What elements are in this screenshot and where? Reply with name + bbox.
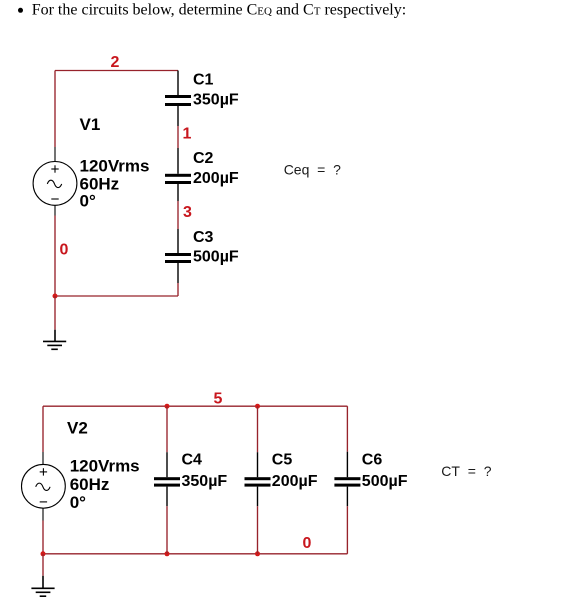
wire: net 2 left vertical: [54, 71, 56, 148]
svg-text:0°: 0°: [70, 493, 86, 512]
svg-text:5: 5: [214, 390, 223, 407]
ground symbol (bottom circuit): [31, 576, 54, 596]
wire: net 0 bottom rail: [43, 553, 347, 555]
wire: C6 branch bottom: [346, 506, 348, 554]
svg-text:1: 1: [183, 126, 192, 143]
wire: net 0 bottom rail: [55, 295, 178, 297]
capacitor C3: [165, 229, 191, 283]
bullet: [18, 8, 23, 13]
capacitor C2: [165, 148, 191, 201]
svg-text:Ceq = ?: Ceq = ?: [284, 161, 341, 177]
svg-text:For the circuits below, determ: For the circuits below, determine CEQ an…: [32, 1, 407, 18]
wire: net 5 left vertical: [42, 406, 44, 452]
wire: stub from junction to ground: [54, 296, 56, 330]
capacitor C4: [154, 452, 180, 506]
capacitor C1: [165, 71, 191, 127]
junction dot net5/C4: [165, 404, 170, 409]
svg-text:C2: C2: [193, 150, 214, 167]
ac source V2: [22, 452, 66, 521]
capacitor C5: [245, 452, 271, 506]
wire: C4 branch top: [166, 406, 168, 452]
svg-text:C5: C5: [272, 451, 293, 468]
svg-text:C1: C1: [193, 71, 214, 88]
wire: stub from junction to ground (bottom): [42, 554, 44, 576]
svg-text:350µF: 350µF: [193, 92, 239, 109]
svg-text:200µF: 200µF: [272, 473, 318, 490]
junction dot at ground tap: [53, 294, 58, 299]
svg-text:C4: C4: [182, 451, 203, 468]
wire: C5 branch bottom: [257, 506, 259, 554]
capacitor C6: [334, 452, 360, 507]
junction dot net0/left: [41, 551, 46, 556]
wire: C4 branch bottom: [166, 506, 168, 554]
wire: C5 branch top: [257, 406, 259, 452]
junction dot net5/C5: [255, 404, 260, 409]
wire: net 0 left vertical below V1: [54, 216, 56, 297]
svg-text:120Vrms: 120Vrms: [70, 457, 140, 476]
svg-text:200µF: 200µF: [193, 170, 239, 187]
wire: net 1 between C1 and C2: [177, 126, 179, 148]
svg-text:C6: C6: [362, 451, 383, 468]
svg-text:0: 0: [303, 535, 312, 552]
junction dot net0/C5: [255, 551, 260, 556]
svg-text:2: 2: [111, 54, 120, 71]
wire: net 2 top rail: [55, 70, 178, 72]
ground symbol (top circuit): [43, 330, 66, 350]
ac source V1: [33, 147, 77, 216]
svg-text:500µF: 500µF: [362, 473, 408, 490]
svg-text:V1: V1: [80, 115, 101, 134]
svg-text:0: 0: [60, 242, 69, 259]
junction dot net0/C4: [165, 551, 170, 556]
svg-text:CT = ?: CT = ?: [441, 463, 491, 479]
svg-text:350µF: 350µF: [182, 473, 228, 490]
wire: net 0 right vertical below C3: [177, 283, 179, 296]
wire: net 0 left vertical below V2: [42, 521, 44, 554]
svg-text:3: 3: [183, 204, 192, 221]
svg-text:60Hz: 60Hz: [70, 475, 110, 494]
svg-text:120Vrms: 120Vrms: [80, 156, 150, 175]
svg-text:500µF: 500µF: [193, 249, 239, 266]
svg-text:V2: V2: [67, 418, 88, 437]
wire: net 5 top rail: [43, 405, 347, 407]
svg-text:C3: C3: [193, 229, 214, 246]
svg-text:0°: 0°: [80, 192, 96, 211]
wire: C6 branch top: [346, 406, 348, 452]
wire: net 3 between C2 and C3: [177, 201, 179, 229]
